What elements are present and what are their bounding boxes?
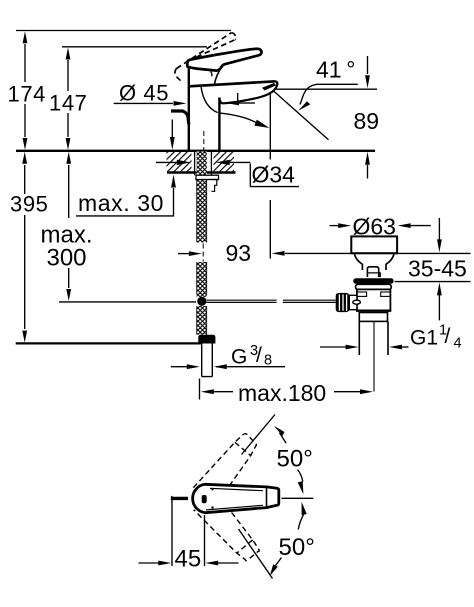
svg-text:max. 30: max. 30	[78, 190, 164, 216]
svg-text:41 °: 41 °	[316, 57, 355, 83]
svg-text:300: 300	[46, 245, 86, 272]
svg-text:89: 89	[354, 108, 380, 134]
svg-text:45: 45	[175, 546, 202, 573]
svg-text:174: 174	[8, 82, 47, 107]
svg-text:/: /	[445, 325, 451, 348]
svg-text:4: 4	[454, 336, 462, 352]
svg-text:93: 93	[226, 240, 252, 266]
svg-text:395: 395	[10, 192, 49, 217]
svg-text:35-45: 35-45	[408, 256, 467, 282]
svg-text:G: G	[231, 346, 247, 369]
svg-text:50°: 50°	[279, 534, 315, 561]
svg-text:50°: 50°	[277, 446, 313, 473]
svg-text:Ø34: Ø34	[252, 162, 296, 188]
svg-text:/: /	[256, 344, 262, 367]
svg-text:8: 8	[264, 353, 272, 369]
svg-text:max.180: max.180	[238, 380, 326, 406]
svg-text:Ø63: Ø63	[353, 214, 396, 240]
svg-text:Ø 45: Ø 45	[119, 81, 169, 106]
svg-text:G1: G1	[410, 327, 438, 350]
svg-text:147: 147	[49, 91, 88, 116]
